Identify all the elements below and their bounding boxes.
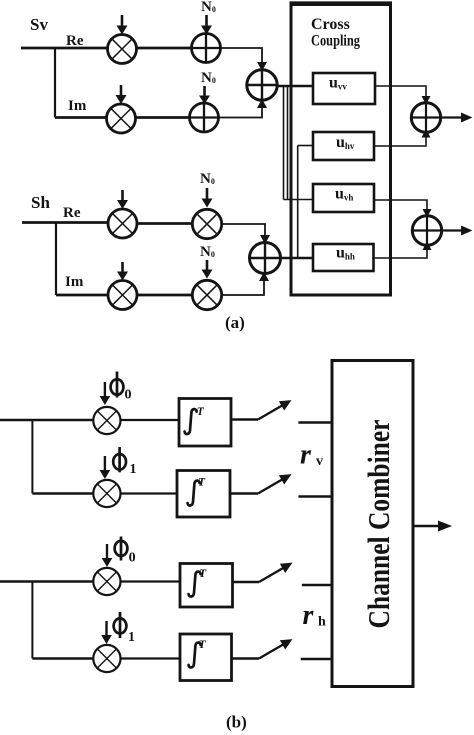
mixer b4	[93, 645, 120, 672]
arrow into mixer b4	[101, 621, 112, 644]
svg-text:h: h	[318, 615, 326, 630]
wire row4 (b)	[32, 657, 93, 659]
svg-text:0: 0	[129, 551, 136, 566]
box Channel Combiner	[332, 361, 413, 687]
integrator box 1	[179, 399, 231, 447]
svg-text:Im: Im	[68, 98, 87, 114]
svg-text:r: r	[300, 440, 312, 471]
arrow down into sum-h top	[260, 235, 270, 244]
svg-text:r: r	[303, 600, 315, 631]
wire h branch vertical	[297, 146, 299, 259]
wire integrator2 output stub	[230, 492, 258, 494]
label integral T (4)	[189, 639, 207, 667]
wire Sh input to multiplier (Re row)	[22, 221, 108, 224]
wire input v (b)	[0, 419, 93, 421]
wire u_hh output to right summer 2 bottom	[374, 248, 428, 258]
svg-text:0: 0	[125, 388, 132, 403]
arrow into multiplier Sh-Im	[117, 262, 128, 281]
arrow N0 into adder Sv-Im	[199, 86, 210, 104]
wire mixer b2 to integrator 2	[121, 492, 178, 494]
wire u_vh output to right summer 2 top	[374, 200, 427, 213]
wire integrator1 output stub	[231, 418, 258, 420]
integrator box 3	[180, 564, 233, 608]
svg-text:Cross: Cross	[311, 16, 350, 33]
arrow down into right summer 1	[422, 96, 431, 105]
wire summer-v output into u_vv	[277, 85, 313, 88]
label Cross Coupling	[311, 16, 360, 50]
svg-text:Sh: Sh	[31, 193, 50, 212]
arrow N0 into adder Sv-Re	[201, 15, 212, 35]
switch arrow row4	[259, 639, 293, 658]
label phi0 row1	[111, 372, 132, 403]
arrow output v	[441, 113, 473, 123]
wire v branch vertical pair	[284, 86, 288, 200]
arrow into multiplier Sv-Im	[116, 85, 127, 104]
summer v	[247, 70, 277, 100]
noise mixer Sh-Im	[192, 280, 221, 309]
arrow output h	[442, 226, 473, 236]
wire Sv branch vertical	[54, 48, 56, 118]
integrator box 4	[180, 634, 232, 681]
wire u_vv output to right summer top	[375, 86, 426, 100]
wire Sv input to multiplier (Re row)	[21, 47, 108, 50]
svg-text:Im: Im	[65, 274, 84, 290]
integrator box 2	[177, 471, 230, 518]
arrow up into right summer 2	[423, 242, 432, 251]
wire combiner stub row2	[298, 495, 332, 497]
label integral T (2)	[188, 477, 206, 506]
multiplier Sv-Im	[107, 104, 136, 133]
svg-text:Re: Re	[63, 205, 81, 221]
arrow down into sum-v top	[257, 62, 267, 71]
wire adder Sv-Re to sum-v elbow	[221, 48, 263, 66]
summer out h	[412, 216, 441, 245]
arrow N0 into mixer Sh-Im	[202, 260, 213, 279]
label phi0 row3	[115, 537, 136, 566]
svg-text:T: T	[198, 477, 206, 489]
arrow up into sum-v bottom	[257, 99, 267, 108]
wire adder Sv-Im to sum-v elbow	[219, 104, 263, 118]
wire v branch into u_vh	[284, 199, 314, 201]
wire multiplier to adder (Sv-Re)	[137, 47, 192, 50]
svg-text:Coupling: Coupling	[311, 33, 360, 50]
wire integrator3 output stub	[233, 581, 260, 583]
svg-text:(b): (b)	[226, 713, 247, 732]
multiplier Sh-Re	[108, 209, 137, 238]
wire mixer Sh-Re to sum-h elbow	[222, 224, 265, 239]
svg-text:T: T	[197, 406, 205, 418]
adder Sv-Re	[192, 34, 221, 63]
wire summer-h output into u_hh	[281, 257, 314, 260]
label phi1 row4	[114, 612, 135, 645]
wire branch h (b)	[31, 582, 33, 659]
wire branch v (b)	[31, 420, 33, 494]
arrow combiner output	[413, 521, 452, 532]
box u_hh	[313, 244, 374, 271]
svg-text:1: 1	[128, 630, 135, 645]
wire input h (b)	[0, 580, 93, 582]
wire Im row to multiplier	[55, 116, 107, 119]
wire Sh-Im row to multiplier	[56, 294, 108, 297]
box Cross Coupling	[290, 3, 393, 295]
noise mixer Sh-Re	[192, 209, 221, 238]
label integral T (1)	[185, 406, 205, 434]
mixer b2	[93, 480, 120, 507]
arrow up into sum-h bottom	[259, 272, 269, 281]
arrow into multiplier Sh-Re	[117, 190, 128, 209]
switch arrow row2	[258, 474, 292, 493]
wire combiner stub row4	[301, 658, 332, 660]
wire multiplier to adder (Sv-Im)	[136, 116, 190, 119]
wire combiner stub row3	[302, 584, 332, 586]
wire u_hv output to right summer bottom	[374, 135, 426, 146]
wire multiplier to noise-mixer (Sh-Im)	[137, 294, 193, 297]
svg-text:Channel Combiner: Channel Combiner	[361, 419, 396, 628]
arrow into mixer b1	[100, 382, 111, 405]
wire integrator4 output stub	[232, 657, 260, 659]
arrow down into right summer 2	[423, 209, 432, 218]
adder Sv-Im	[190, 103, 219, 132]
label integral T (3)	[189, 568, 207, 597]
wire mixer b4 to integrator 4	[121, 657, 181, 659]
mixer b1	[93, 407, 120, 434]
multiplier Sv-Re	[108, 35, 137, 64]
summer h	[250, 243, 281, 274]
arrow into mixer b2	[100, 456, 111, 479]
arrow into multiplier Sv-Re	[117, 15, 128, 35]
switch arrow row3	[259, 563, 293, 582]
svg-text:v: v	[316, 454, 323, 469]
wire mixer b1 to integrator 1	[121, 419, 180, 421]
box u_vh	[313, 184, 374, 212]
box u_hv	[313, 132, 374, 160]
multiplier Sh-Im	[108, 281, 137, 310]
summer out v	[411, 103, 440, 132]
mixer b3	[93, 568, 120, 595]
arrow N0 into mixer Sh-Re	[202, 188, 213, 208]
box u_vv	[313, 73, 375, 104]
wire combiner stub row1	[298, 421, 332, 423]
wire multiplier to noise-mixer (Sh-Re)	[137, 222, 193, 225]
wire Sh branch vertical	[55, 223, 57, 296]
wire mixer Sh-Im to sum-h elbow	[222, 277, 264, 295]
wire h branch into u_hv	[298, 145, 313, 147]
arrow into mixer b3	[102, 544, 113, 567]
svg-text:T: T	[199, 639, 207, 651]
arrow up into right summer 1	[422, 129, 431, 138]
label phi1 row2	[113, 447, 136, 477]
wire mixer b3 to integrator 3	[121, 580, 181, 582]
svg-text:1: 1	[130, 462, 137, 477]
svg-text:(a): (a)	[225, 313, 245, 332]
svg-text:T: T	[199, 568, 207, 580]
switch arrow row1	[258, 400, 292, 419]
svg-text:Sv: Sv	[30, 15, 48, 34]
wire row2 (b)	[32, 492, 93, 494]
